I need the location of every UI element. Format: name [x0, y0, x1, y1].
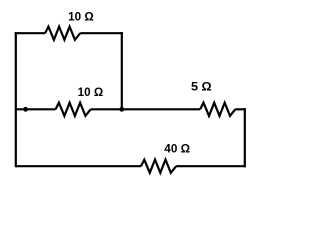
resistor R4 40 ohm (bottom) [141, 160, 176, 173]
wire top horizontal (right segment) [80, 32, 123, 34]
wire middle horizontal (center segment) [91, 108, 201, 110]
wire right vertical [244, 108, 246, 167]
svg-text:40 Ω: 40 Ω [164, 143, 190, 156]
wire middle horizontal (right segment) [235, 108, 246, 110]
wire bottom horizontal (left segment) [16, 165, 141, 167]
svg-text:10 Ω: 10 Ω [68, 10, 94, 23]
node junction dot (right) [119, 107, 124, 112]
svg-text:10 Ω: 10 Ω [78, 86, 104, 99]
resistor R1 10 ohm (top) [45, 27, 80, 40]
wire right vertical of top loop [121, 32, 123, 109]
resistor R2 10 ohm (middle) [56, 103, 91, 116]
node junction dot (left) [23, 107, 28, 112]
wire top horizontal (left segment) [15, 32, 45, 34]
wire middle horizontal (left segment) [16, 108, 56, 110]
wire left vertical [15, 32, 17, 167]
resistor R3 5 ohm [200, 103, 235, 116]
wire bottom horizontal (right segment) [176, 165, 246, 167]
svg-text:5 Ω: 5 Ω [191, 81, 212, 94]
